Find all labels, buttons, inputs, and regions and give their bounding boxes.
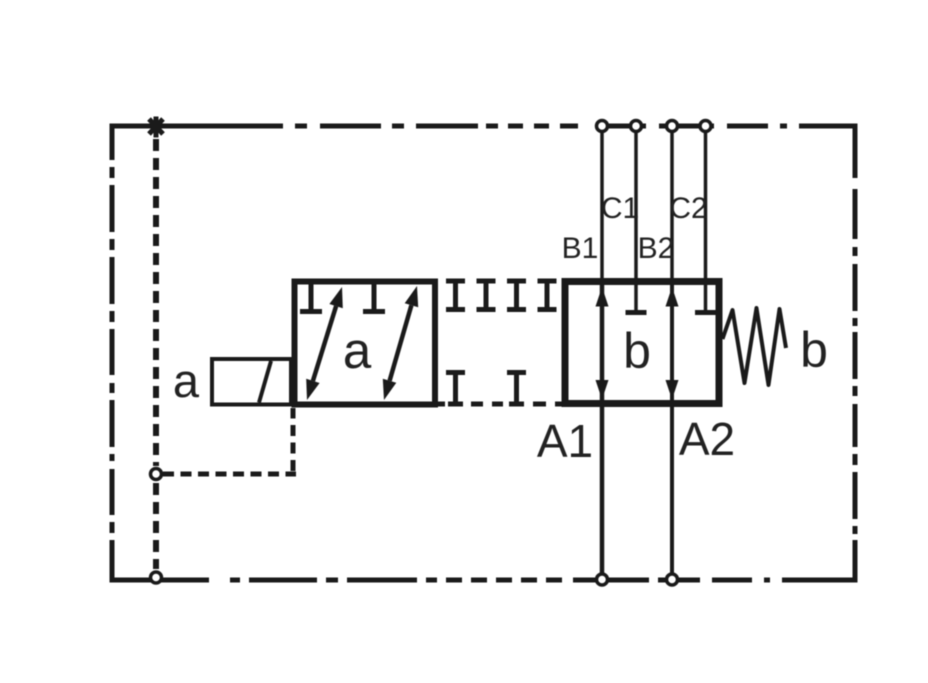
- port circle C2: [700, 121, 711, 132]
- blocked port T right in box a: [363, 284, 385, 312]
- solenoid actuator a box: [212, 359, 291, 405]
- pilot vent X marker at top node: [149, 117, 163, 138]
- wire B2 to A2: [670, 133, 674, 278]
- wire C1 blocked: [626, 133, 647, 313]
- valve position box b: [565, 282, 719, 404]
- svg-text:a: a: [343, 322, 372, 379]
- enclosure border right edge (dash-dot): [853, 124, 858, 583]
- wire B1 to A1: [600, 133, 604, 278]
- svg-text:C1: C1: [601, 192, 639, 225]
- solenoid slash symbol: [259, 361, 271, 403]
- svg-text:B2: B2: [638, 232, 675, 265]
- svg-text:a: a: [173, 354, 200, 407]
- centre position bottom blocked port 2: [507, 373, 526, 403]
- port circle B1: [597, 121, 608, 132]
- svg-text:A2: A2: [679, 413, 735, 465]
- pilot branch to solenoid vertical dashed: [291, 408, 296, 471]
- port circle C1: [631, 121, 642, 132]
- blocked port T left in box a: [300, 284, 322, 312]
- flow arrow 1 in box a (double headed): [306, 287, 343, 400]
- pilot line vertical dashed (upper run): [153, 139, 159, 466]
- valve position box a: [295, 282, 436, 405]
- centre position top blocked port 4: [538, 281, 557, 310]
- port circle B2: [667, 121, 678, 132]
- enclosure border left edge (dash-dot): [110, 124, 115, 583]
- pilot branch to solenoid horizontal dashed: [163, 472, 296, 477]
- centre position top blocked port 3: [507, 281, 526, 310]
- flow arrowheads on wire B1-A1: [596, 287, 609, 400]
- port circle A1: [597, 574, 608, 585]
- junction circle at pilot tee: [151, 469, 162, 480]
- port circle A2: [667, 574, 678, 585]
- flow arrow 2 in box a (double headed): [383, 286, 418, 400]
- spring b return: [723, 308, 787, 385]
- centre position top blocked port 1: [446, 281, 465, 310]
- centre position bottom blocked port 1: [446, 373, 465, 403]
- svg-text:b: b: [623, 323, 651, 379]
- svg-text:A1: A1: [537, 415, 593, 467]
- svg-text:B1: B1: [562, 232, 599, 265]
- centre position bottom dashed edge: [435, 402, 563, 407]
- enclosure border bottom edge (dash-dot): [110, 578, 858, 583]
- svg-text:C2: C2: [669, 192, 707, 225]
- junction circle at bottom border: [151, 572, 162, 583]
- flow arrowheads on wire B2-A2: [666, 287, 679, 400]
- centre position top blocked port 2: [477, 281, 496, 310]
- wire C2 blocked: [695, 133, 716, 313]
- pilot line vertical dashed (lower run): [153, 483, 159, 569]
- svg-text:b: b: [800, 322, 828, 378]
- enclosure border top edge (dash-dot): [110, 124, 858, 129]
